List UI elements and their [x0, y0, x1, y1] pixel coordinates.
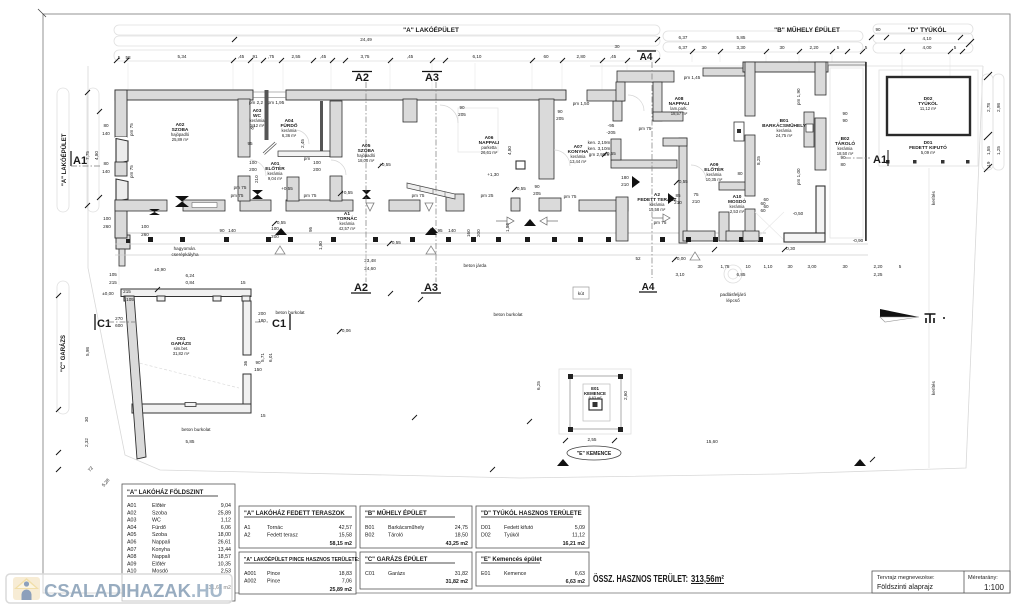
svg-text:200: 200 — [313, 167, 321, 172]
svg-text:"A" LAKÓÉPÜLET: "A" LAKÓÉPÜLET — [60, 133, 68, 186]
table A lakohaz foldszint — [122, 484, 235, 601]
svg-text:5: 5 — [899, 264, 902, 269]
svg-text:pm 1,00: pm 1,00 — [796, 168, 801, 185]
left label "C" GARAZS rotated — [60, 335, 67, 372]
partition A01|A05 upper — [330, 101, 342, 157]
svg-text:5,09 m²: 5,09 m² — [921, 150, 936, 155]
D run posts — [886, 160, 970, 164]
svg-text:215: 215 — [123, 289, 131, 294]
svg-text:C1: C1 — [97, 318, 111, 330]
svg-text:42,57 m²: 42,57 m² — [339, 226, 356, 231]
svg-text:kerítés: kerítés — [931, 381, 936, 395]
site boundary fence line — [88, 66, 983, 478]
svg-text:95: 95 — [308, 226, 313, 232]
svg-text:1,55: 1,55 — [986, 146, 991, 155]
building B north wall — [743, 62, 828, 72]
A08 east stub — [653, 112, 683, 121]
svg-text:90: 90 — [875, 27, 881, 32]
section mark A2 bottom — [351, 282, 371, 294]
svg-text:160: 160 — [466, 229, 471, 237]
svg-text:Előtér: Előtér — [152, 503, 166, 509]
kemence label — [584, 386, 606, 400]
garage west slanted wall — [125, 296, 146, 459]
svg-text:90: 90 — [255, 360, 261, 365]
svg-text:6,63 m²: 6,63 m² — [589, 396, 603, 400]
walkway arrows — [496, 214, 670, 225]
room label A10 MOSDO — [728, 194, 746, 214]
svg-text:Garázs: Garázs — [388, 571, 405, 577]
svg-text:25,89: 25,89 — [218, 510, 231, 516]
svg-text:2,32: 2,32 — [84, 438, 89, 447]
room label A05 SZOBA — [357, 143, 376, 163]
room label D02 TYUKOL — [918, 96, 938, 111]
top dimension chain row1 — [360, 27, 932, 50]
ossz hasznos terulet line — [593, 572, 725, 585]
svg-text:6,63 m2: 6,63 m2 — [566, 579, 585, 585]
svg-text:25,89 m2: 25,89 m2 — [330, 587, 352, 593]
pier below north wall — [403, 99, 417, 122]
svg-text:105: 105 — [126, 297, 134, 302]
svg-text:260: 260 — [103, 224, 111, 229]
svg-text:"A" LAKÓHÁZ FÖLDSZINT: "A" LAKÓHÁZ FÖLDSZINT — [127, 488, 204, 496]
svg-text:24,49: 24,49 — [360, 37, 372, 42]
svg-text:A002: A002 — [244, 579, 256, 585]
svg-text:31,82 m2: 31,82 m2 — [446, 579, 468, 585]
svg-text:100: 100 — [141, 224, 149, 229]
svg-text:pm 75: pm 75 — [234, 185, 247, 190]
svg-text:2,53 m²: 2,53 m² — [730, 209, 745, 214]
svg-text:pm 2,2: pm 2,2 — [249, 100, 263, 105]
direction triangles on porch — [275, 219, 866, 466]
svg-text:-0,30: -0,30 — [785, 246, 796, 251]
svg-text:A2: A2 — [355, 72, 369, 84]
room label A03 WC — [250, 108, 266, 128]
terrace west wall — [616, 197, 628, 241]
svg-text:A2: A2 — [354, 282, 368, 294]
kemence inner square — [583, 384, 610, 421]
svg-text:6,37: 6,37 — [679, 35, 688, 40]
svg-text:95: 95 — [247, 141, 253, 146]
svg-text:Konyha: Konyha — [152, 547, 170, 553]
section line A4 — [651, 62, 653, 278]
svg-text:lépcső: lépcső — [726, 298, 740, 303]
svg-text:4,10: 4,10 — [923, 36, 932, 41]
svg-text:4,00: 4,00 — [923, 45, 932, 50]
building A south wall segments with porch openings — [115, 194, 628, 211]
svg-text:2,20: 2,20 — [874, 264, 883, 269]
svg-text:A3: A3 — [424, 282, 438, 294]
svg-text:4,80: 4,80 — [507, 146, 512, 155]
svg-text:8,25: 8,25 — [756, 156, 761, 165]
svg-text:pm 75: pm 75 — [412, 193, 425, 198]
table E kemences — [476, 552, 589, 586]
svg-text:A4: A4 — [640, 52, 653, 63]
north arrow — [880, 309, 945, 323]
svg-text:52: 52 — [635, 256, 641, 261]
top dimension tick marks — [114, 35, 965, 63]
svg-text:6,01: 6,01 — [268, 353, 273, 362]
svg-text:5,34: 5,34 — [178, 54, 187, 59]
svg-text:-95: -95 — [608, 123, 615, 128]
svg-text:+0,55: +0,55 — [281, 186, 293, 191]
svg-text:A1: A1 — [244, 525, 251, 531]
svg-text:B01: B01 — [365, 525, 374, 531]
section line A3 — [435, 82, 437, 282]
kemence outer light square — [559, 369, 631, 434]
svg-text:1:100: 1:100 — [984, 583, 1005, 592]
room label A02 SZOBA — [171, 122, 190, 142]
svg-text:Nappali: Nappali — [152, 554, 170, 560]
svg-text:5,85: 5,85 — [737, 35, 746, 40]
svg-text:150: 150 — [254, 367, 262, 372]
svg-text:18,83: 18,83 — [339, 571, 352, 577]
svg-text:30: 30 — [697, 264, 703, 269]
svg-text:100: 100 — [249, 160, 257, 165]
svg-text:5,71: 5,71 — [260, 353, 265, 362]
section mark C1 right — [255, 314, 290, 330]
header "A" LAKOEPULET — [403, 25, 459, 34]
svg-text:80: 80 — [103, 123, 109, 128]
svg-text:210: 210 — [621, 182, 629, 187]
svg-text:D01: D01 — [481, 525, 491, 531]
svg-text:D02: D02 — [481, 533, 491, 539]
svg-text:9,04 m²: 9,04 m² — [268, 176, 283, 181]
svg-text:"A" LAKÓÉPÜLET PINCE HASZNOS T: "A" LAKÓÉPÜLET PINCE HASZNOS TERÜLETE: — [244, 555, 360, 563]
kemence dim 2,60 rotated — [536, 381, 628, 400]
"E" KEMENCE oval label — [567, 446, 621, 460]
svg-text:A01: A01 — [127, 503, 136, 509]
kut small box — [573, 287, 589, 299]
svg-text:600: 600 — [115, 323, 123, 328]
svg-text:Nappali: Nappali — [152, 540, 170, 546]
svg-text:pm 75: pm 75 — [304, 193, 317, 198]
A09 west wall — [679, 138, 687, 243]
svg-text:Tornác: Tornác — [267, 525, 283, 531]
svg-text:140: 140 — [102, 169, 110, 174]
svg-text:105: 105 — [109, 272, 117, 277]
left rotated dims — [84, 151, 111, 488]
top dimension capsules — [114, 24, 973, 61]
svg-text:Tároló: Tároló — [388, 533, 403, 539]
svg-text:90: 90 — [842, 118, 848, 123]
svg-text:,45: ,45 — [407, 54, 414, 59]
svg-text:31,82: 31,82 — [455, 571, 468, 577]
table D tyukol — [476, 506, 589, 548]
table B muhely — [360, 506, 472, 548]
svg-text:6,37: 6,37 — [679, 45, 688, 50]
external stair ramp at A06 — [366, 183, 455, 211]
chimney symbol west room — [149, 196, 189, 215]
svg-text:13,44: 13,44 — [218, 547, 231, 553]
svg-text:6,63: 6,63 — [575, 571, 585, 577]
partition WC thin wall — [265, 90, 269, 140]
room label C01 GARAZS — [171, 336, 192, 356]
svg-text:36: 36 — [243, 360, 248, 366]
svg-text:43,25 m2: 43,25 m2 — [446, 541, 468, 547]
B02 roof edge line — [828, 62, 866, 65]
svg-text:Előtér: Előtér — [152, 561, 166, 567]
svg-text:Pince: Pince — [267, 571, 280, 577]
svg-text:91: 91 — [252, 54, 258, 59]
svg-text:pm 1,45: pm 1,45 — [684, 75, 701, 80]
right rotated dims — [931, 103, 1001, 205]
svg-text:31,82 m²: 31,82 m² — [173, 351, 190, 356]
svg-text:-0,50: -0,50 — [793, 211, 804, 216]
svg-text:"C" GARÁZS ÉPÜLET: "C" GARÁZS ÉPÜLET — [365, 555, 428, 563]
svg-text:3,00: 3,00 — [808, 264, 817, 269]
A08 step wall top band — [617, 71, 674, 82]
svg-text:30: 30 — [614, 44, 620, 49]
svg-text:WC: WC — [152, 518, 161, 524]
svg-text:A07: A07 — [127, 547, 136, 553]
svg-text:kút: kút — [578, 291, 585, 296]
kemence dim 2,55 — [563, 437, 617, 443]
svg-text:pm 75: pm 75 — [231, 193, 244, 198]
svg-text:90: 90 — [842, 111, 848, 116]
door symbol at entrance — [252, 190, 263, 199]
svg-text:205: 205 — [556, 116, 564, 121]
garage north wall — [121, 289, 251, 301]
svg-text:2,25: 2,25 — [874, 272, 883, 277]
svg-text:25,89 m²: 25,89 m² — [172, 137, 189, 142]
svg-text:padlásfeljáró: padlásfeljáró — [720, 292, 746, 297]
right dim capsules — [982, 74, 1004, 170]
svg-text:A06: A06 — [127, 540, 136, 546]
room label A04 FURDO — [280, 118, 297, 138]
small tick marks scattered — [155, 152, 875, 472]
svg-text:+1,30: +1,30 — [487, 172, 499, 177]
svg-text:ÖSSZ. HASZNOS TERÜLET:: ÖSSZ. HASZNOS TERÜLET: — [593, 572, 688, 585]
room label B01 BARKACSMUHELY — [762, 118, 807, 138]
partition A07|A08 upper stub — [613, 101, 622, 121]
section mark A1 left — [71, 151, 102, 167]
svg-text:80: 80 — [737, 171, 743, 176]
svg-text:15,58 m²: 15,58 m² — [649, 207, 666, 212]
building A north wall east segment — [286, 90, 566, 100]
A08 step wall lower band — [587, 90, 624, 101]
A08 west step vertical — [616, 82, 625, 101]
svg-text:140: 140 — [102, 131, 110, 136]
svg-text:6,36 m²: 6,36 m² — [282, 133, 297, 138]
svg-text:30: 30 — [779, 45, 785, 50]
A08 south wall band — [611, 160, 677, 168]
svg-text:1,75: 1,75 — [721, 264, 730, 269]
svg-text:80: 80 — [840, 162, 846, 167]
section mark A3 top — [422, 72, 442, 85]
svg-text:90: 90 — [840, 155, 846, 160]
svg-text:Barkácsműhely: Barkácsműhely — [388, 525, 425, 531]
svg-text:3,10: 3,10 — [676, 272, 685, 277]
room label A01 ELOTER — [265, 161, 285, 181]
room label A2 FEDETT TERASZ — [637, 192, 676, 212]
pavement spiral bottom — [720, 265, 746, 303]
svg-text:pm 75: pm 75 — [129, 123, 134, 136]
building B east wall segments — [815, 62, 826, 234]
svg-text:beton járda: beton járda — [464, 263, 487, 268]
D covered run outline — [879, 70, 978, 166]
svg-text:Kemence: Kemence — [504, 571, 526, 577]
svg-text:pm 25: pm 25 — [481, 193, 494, 198]
A10 north wall — [719, 182, 748, 190]
svg-text:3,30: 3,30 — [737, 45, 746, 50]
terrace roof band — [703, 68, 745, 76]
svg-text:6,24: 6,24 — [186, 273, 195, 278]
svg-text:+0,55: +0,55 — [341, 190, 353, 195]
svg-text:24,75: 24,75 — [455, 525, 468, 531]
svg-text:30: 30 — [787, 264, 793, 269]
svg-text:313,56m²: 313,56m² — [691, 574, 725, 585]
table C garazs — [360, 552, 472, 589]
beton jarda label far right rotated — [931, 381, 936, 395]
svg-text:26,61: 26,61 — [218, 540, 231, 546]
svg-text:E01: E01 — [481, 571, 490, 577]
svg-text:pm 1,90: pm 1,90 — [796, 88, 801, 105]
svg-text:60: 60 — [763, 204, 769, 209]
room label B02 TAROLO — [835, 136, 856, 156]
svg-text:100: 100 — [103, 216, 111, 221]
svg-text:,45: ,45 — [238, 54, 245, 59]
svg-text:A03: A03 — [127, 518, 136, 524]
svg-text:pm 75: pm 75 — [564, 194, 577, 199]
svg-text:26,61 m²: 26,61 m² — [481, 150, 498, 155]
svg-text:80: 80 — [103, 161, 109, 166]
svg-text:16,21 m2: 16,21 m2 — [563, 541, 585, 547]
west wall window 1 — [115, 137, 128, 164]
svg-text:"D" TYÚKÓL: "D" TYÚKÓL — [908, 25, 947, 34]
svg-text:10: 10 — [745, 264, 751, 269]
svg-text:9,04: 9,04 — [221, 503, 231, 509]
svg-text:205: 205 — [458, 112, 466, 117]
building D tyukol rectangle — [887, 77, 970, 135]
porch columns — [148, 237, 763, 242]
svg-text:24,75 m²: 24,75 m² — [776, 133, 793, 138]
entrance east pier stub — [287, 177, 299, 201]
svg-text:cserépkályha: cserépkályha — [171, 252, 199, 257]
svg-text:"E" Kemencés épület: "E" Kemencés épület — [481, 557, 542, 563]
svg-text:A04: A04 — [127, 525, 136, 531]
svg-text:215: 215 — [109, 280, 117, 285]
svg-text:3,75: 3,75 — [361, 54, 370, 59]
svg-text:6,06: 6,06 — [221, 525, 231, 531]
svg-text:ken. 3,10m: ken. 3,10m — [588, 146, 611, 151]
svg-text:Tyúkól: Tyúkól — [504, 533, 519, 539]
svg-text:85: 85 — [675, 193, 681, 198]
svg-text:2,45: 2,45 — [300, 139, 305, 148]
svg-text:1,12: 1,12 — [221, 518, 231, 524]
svg-text:beton burkolat: beton burkolat — [493, 312, 523, 317]
svg-text:A09: A09 — [127, 561, 136, 567]
svg-text:270: 270 — [115, 316, 123, 321]
svg-text:±0,90: ±0,90 — [154, 267, 166, 272]
svg-text:5,09: 5,09 — [575, 525, 585, 531]
svg-text:18,00: 18,00 — [218, 532, 231, 538]
svg-text:Fedett kifutó: Fedett kifutó — [504, 525, 533, 531]
garage door swing dashes — [135, 362, 239, 388]
right tick marks — [966, 39, 992, 172]
svg-text:"A" LAKÓHÁZ FEDETT TERASZOK: "A" LAKÓHÁZ FEDETT TERASZOK — [244, 509, 345, 517]
partition A05|A06 — [539, 99, 554, 179]
svg-text:95: 95 — [437, 228, 443, 233]
svg-text:11,12: 11,12 — [572, 533, 585, 539]
svg-text:CSALADIHAZAK.HU: CSALADIHAZAK.HU — [44, 580, 223, 601]
svg-text:5,98: 5,98 — [85, 347, 90, 356]
svg-text:60: 60 — [543, 54, 549, 59]
svg-text:2,20: 2,20 — [810, 45, 819, 50]
svg-text:A3: A3 — [425, 72, 439, 84]
svg-text:Fürdő: Fürdő — [152, 525, 166, 531]
kemence main square — [570, 376, 621, 429]
svg-text:140: 140 — [228, 228, 236, 233]
table A pince — [239, 552, 360, 594]
south wall window inset — [192, 203, 217, 208]
kemence oven box — [589, 399, 602, 410]
A10 west wall — [719, 212, 729, 241]
svg-text:A2: A2 — [244, 533, 251, 539]
bottom dims 23,48 24,60 — [364, 255, 376, 275]
building A north wall west segment — [115, 90, 253, 100]
garage south wall — [132, 403, 251, 414]
B02 floor thin outline — [830, 68, 863, 238]
svg-text:210: 210 — [692, 199, 700, 204]
svg-text:Földszinti alaprajz: Földszinti alaprajz — [877, 584, 934, 591]
svg-text:90: 90 — [557, 109, 563, 114]
svg-text:42,57: 42,57 — [339, 525, 352, 531]
A04 south wall stub — [278, 151, 330, 157]
svg-text:A02: A02 — [127, 510, 136, 516]
left dim capsules — [57, 88, 99, 414]
svg-text:30: 30 — [842, 264, 848, 269]
svg-text:60: 60 — [763, 197, 769, 202]
svg-text:Fedett terasz: Fedett terasz — [267, 533, 298, 539]
svg-text:2,98: 2,98 — [996, 103, 1001, 112]
svg-text:"C" GARÁZS: "C" GARÁZS — [60, 335, 67, 372]
svg-text:,45: ,45 — [610, 54, 617, 59]
svg-text:260: 260 — [141, 232, 149, 237]
svg-text:10,35 m²: 10,35 m² — [706, 177, 723, 182]
svg-text:2,60: 2,60 — [623, 391, 628, 400]
west wall window 2 — [115, 177, 128, 201]
svg-text:100: 100 — [271, 226, 279, 231]
svg-text:1,80: 1,80 — [318, 241, 323, 250]
svg-text:180: 180 — [621, 175, 629, 180]
svg-text:-0,90: -0,90 — [853, 238, 864, 243]
room label A09 ELOTER — [704, 162, 724, 182]
svg-text:A08: A08 — [127, 554, 136, 560]
svg-text:beton burkolat: beton burkolat — [275, 310, 305, 315]
section mark A4 bottom — [639, 282, 657, 293]
svg-text:A001: A001 — [244, 571, 256, 577]
scattered interior dims — [102, 75, 901, 444]
svg-text:15,58: 15,58 — [339, 533, 352, 539]
svg-text:18,00 m²: 18,00 m² — [358, 158, 375, 163]
svg-text:A1: A1 — [873, 154, 887, 166]
svg-text:200: 200 — [258, 311, 266, 316]
svg-text:15: 15 — [240, 280, 246, 285]
A08 east wall vertical — [653, 82, 662, 121]
partition A04 east thin wall — [320, 101, 323, 151]
svg-text:5: 5 — [954, 45, 957, 50]
building B west wall lower — [745, 209, 755, 241]
building A west wall upper — [115, 90, 127, 137]
light guide lines — [119, 54, 950, 285]
svg-text:6,85: 6,85 — [737, 272, 746, 277]
svg-text:,45: ,45 — [320, 54, 327, 59]
svg-text:beton burkolat: beton burkolat — [181, 427, 211, 432]
svg-text:A05: A05 — [127, 532, 136, 538]
svg-text:7,06: 7,06 — [342, 579, 352, 585]
cellar stair outside west corner — [116, 235, 130, 266]
svg-text:A4: A4 — [642, 282, 655, 293]
